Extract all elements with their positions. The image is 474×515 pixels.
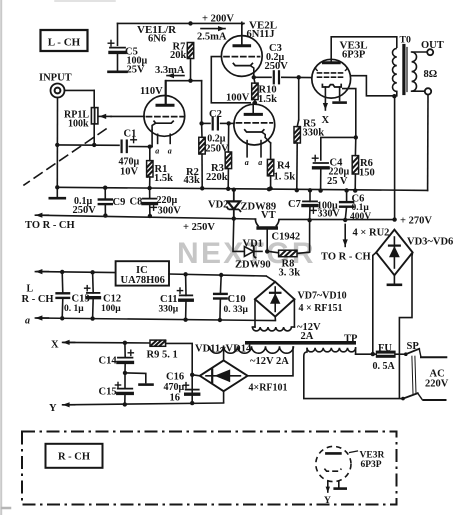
svg-text:T0: T0 [400, 34, 412, 45]
resistor R4 1.5k [267, 159, 295, 182]
tube VE3L labels [340, 40, 368, 61]
wire [117, 23, 119, 45]
svg-text:C10: C10 [228, 294, 246, 305]
svg-text:a: a [258, 158, 262, 167]
transformer TP core [245, 341, 356, 345]
svg-text:3. 3k: 3. 3k [279, 268, 301, 279]
wire R9 to C16 node [166, 342, 193, 344]
svg-text:Y: Y [324, 496, 331, 506]
svg-text:ZDW90: ZDW90 [235, 260, 271, 271]
resistor R1 1.5k [147, 161, 174, 184]
wire lower terminal to ground rail [427, 95, 429, 191]
wire [92, 272, 95, 293]
svg-text:1.5k: 1.5k [154, 173, 173, 184]
capacitor C7 100u 330V [288, 199, 341, 220]
svg-text:X: X [322, 115, 330, 126]
svg-text:Y: Y [49, 403, 57, 414]
triode VE1L/R 6N6 V1 [144, 81, 185, 156]
switch SP lower pole [401, 393, 445, 400]
R-CH label box [46, 444, 103, 468]
wire [219, 275, 222, 294]
svg-text:R9 5. 1: R9 5. 1 [147, 350, 178, 361]
wire Y rail [64, 403, 224, 405]
wire VE3L cathode leads [324, 87, 326, 96]
wire secondary bottom to lower terminal [412, 90, 425, 92]
wire +250V line [37, 215, 256, 219]
svg-text:VE3R: VE3R [360, 451, 385, 461]
svg-text:+ 270V: + 270V [400, 216, 432, 227]
wire [104, 188, 106, 200]
triode VE3R 6P3P dashed [316, 446, 351, 492]
svg-text:16: 16 [170, 393, 181, 404]
wiper arrow of RP1L [99, 114, 111, 119]
transistor VT C1942 [255, 210, 300, 251]
transformer TP upper 12V winding [252, 327, 291, 331]
ground [109, 71, 127, 74]
svg-text:0. 1μ: 0. 1μ [64, 304, 84, 314]
wire bridge AC legs to winding [254, 299, 256, 327]
svg-text:C1942: C1942 [272, 231, 301, 242]
transformer T0 primary winding [392, 48, 396, 91]
capacitor C12 100u [85, 286, 122, 314]
OUT terminal [421, 40, 444, 55]
svg-text:X: X [51, 339, 59, 350]
wire [346, 191, 348, 203]
svg-text:0. 33μ: 0. 33μ [224, 305, 249, 315]
svg-text:a: a [155, 146, 159, 155]
svg-text:6N6: 6N6 [148, 34, 166, 45]
svg-text:110V: 110V [140, 86, 163, 97]
svg-text:L - CH: L - CH [48, 37, 81, 49]
wire [321, 137, 356, 160]
wire bridge DC- to heater rail [274, 317, 276, 321]
svg-text:VD7~VD10: VD7~VD10 [298, 291, 347, 302]
wire [254, 250, 262, 252]
svg-text:a: a [245, 158, 249, 167]
capacitor C13 0.1u [57, 293, 90, 314]
wire [190, 59, 192, 81]
svg-text:C9: C9 [113, 197, 126, 208]
wire +200V to VE2 plate [242, 23, 244, 45]
input jack J1 [39, 73, 72, 98]
svg-text:C15: C15 [99, 387, 117, 398]
svg-text:a: a [168, 146, 172, 155]
zener diode VD1 ZDW90 [235, 239, 271, 271]
svg-text:INPUT: INPUT [39, 73, 72, 84]
beam tetrode VE3L 6P3P [312, 37, 351, 98]
svg-text:+ 250V: + 250V [183, 222, 215, 233]
svg-text:VD3~VD6: VD3~VD6 [407, 237, 453, 248]
svg-text:250V: 250V [265, 61, 289, 72]
wire VE2 grid to lower plate node [211, 57, 251, 103]
wire [117, 52, 119, 70]
svg-text:6N11J: 6N11J [247, 29, 275, 40]
svg-text:4 × RF151: 4 × RF151 [299, 303, 343, 314]
svg-text:220V: 220V [425, 379, 449, 390]
node cathode bias junction [354, 135, 358, 139]
triode VE2L 6N11 upper section [221, 22, 262, 77]
arrow L R-CH [22, 269, 54, 305]
svg-text:UA78H06: UA78H06 [121, 275, 165, 286]
wire [61, 272, 64, 293]
svg-text:VT: VT [261, 210, 276, 221]
svg-text:3.3mA: 3.3mA [155, 65, 185, 76]
resistor R5 330k [294, 119, 324, 143]
transformer T0 core [404, 46, 407, 94]
capacitor C2 0.2u 250V [205, 109, 229, 155]
svg-text:150: 150 [359, 168, 375, 179]
capacitor C8 220u 300V [130, 195, 182, 216]
wire [111, 115, 144, 117]
svg-text:FU: FU [378, 343, 392, 354]
ground [140, 383, 153, 386]
svg-text:6P3P: 6P3P [342, 50, 366, 61]
wire IC output rail [37, 272, 116, 273]
svg-text:C14: C14 [99, 356, 118, 367]
wire transformer primary bottom to +270V node [396, 91, 398, 95]
svg-text:20k: 20k [170, 50, 187, 61]
capacitor C15 [99, 382, 133, 397]
tube VE1 labels [137, 24, 177, 45]
wire C3 to VE3L grid [282, 76, 312, 78]
svg-text:2A: 2A [301, 331, 314, 342]
wire [65, 89, 95, 91]
svg-text:C12: C12 [103, 294, 121, 305]
capacitor C1 470u 10V [119, 129, 140, 178]
svg-text:SP: SP [407, 341, 420, 352]
regulator IC UA78H06 [116, 261, 169, 286]
svg-text:25V: 25V [127, 65, 146, 76]
svg-text:300V: 300V [158, 205, 182, 216]
svg-text:+ 200V: + 200V [202, 14, 234, 25]
wire bridge DC left leg [192, 375, 200, 376]
capacitor C11 330u [159, 288, 193, 315]
wire R8 to +270V rail [297, 221, 310, 254]
resistor R7 20k [170, 42, 194, 61]
svg-text:250V: 250V [73, 205, 97, 216]
wire +200V rail [118, 22, 245, 24]
wire [185, 274, 187, 295]
transformer TP lower 12V winding [210, 346, 294, 353]
filament Y lead [324, 487, 331, 506]
fuse FU 0.5A [373, 343, 396, 372]
wire [227, 123, 229, 152]
capacitor C14 [99, 350, 134, 366]
svg-text:220k: 220k [206, 172, 228, 183]
resistor R3 220k [206, 152, 232, 183]
capacitor C10 0.33u [214, 294, 248, 315]
resistor R2 43k [184, 137, 206, 186]
wire VE3L screen to transformer bottom [350, 76, 393, 96]
tube VE3R labels [350, 451, 385, 471]
svg-text:100μ: 100μ [101, 304, 121, 314]
wire [265, 138, 270, 144]
wire bridge AC right leg [399, 252, 412, 398]
wire +270V rail [279, 218, 395, 220]
output lower terminal [425, 88, 431, 94]
svg-text:2.5mA: 2.5mA [197, 32, 227, 43]
wire primary right to fuse [355, 348, 357, 354]
wire IC input rail [169, 274, 266, 276]
capacitor C3 0.2u 250V [265, 43, 289, 83]
ground [335, 487, 346, 490]
R-CH block dash-dot frame [22, 432, 397, 505]
zener diode VD2 ZDW89 [208, 190, 276, 219]
label 12V 2A upper [297, 322, 321, 342]
wire [320, 168, 322, 191]
arrow Y heater [49, 402, 75, 414]
capacitor C9 0.1u 250V [73, 196, 126, 216]
svg-text:1. 5k: 1. 5k [274, 172, 296, 183]
wire bridge bottom to ground [393, 275, 395, 283]
capacitor C5 100u 25V [108, 40, 147, 75]
wire VE3L cathode to bias network [342, 89, 356, 138]
svg-text:TO R - CH: TO R - CH [321, 252, 371, 263]
svg-text:1.5k: 1.5k [258, 94, 277, 105]
filament arrow to X [322, 97, 330, 126]
svg-text:330μ: 330μ [159, 305, 179, 315]
mechanical link dashed line [24, 129, 106, 185]
capacitor C6 0.1u 400V [340, 193, 371, 222]
transformer T0 secondary winding [412, 52, 417, 91]
wire [93, 90, 95, 107]
resistor R6 150 [352, 156, 375, 179]
current arrow 3.3mA [155, 65, 185, 78]
wire secondary to OUT terminal [412, 51, 427, 53]
wire [298, 77, 300, 120]
svg-text:C8: C8 [130, 197, 143, 208]
svg-text:VD1: VD1 [243, 239, 263, 250]
wire [354, 137, 356, 155]
transformer TP primary winding [307, 348, 356, 352]
label AC 220V [425, 369, 449, 390]
svg-text:C11: C11 [160, 294, 178, 305]
svg-text:C1: C1 [124, 129, 137, 140]
resistor R9 5.1 [147, 340, 178, 360]
wire [149, 147, 151, 161]
svg-text:470μ: 470μ [164, 382, 185, 393]
svg-text:C2: C2 [209, 109, 222, 120]
ground [334, 101, 346, 104]
potentiometer RP1L 100k [64, 108, 98, 130]
wire plate node to C2 junction [166, 80, 202, 82]
svg-text:a: a [25, 316, 30, 327]
arrow TO R-CH left [25, 213, 75, 231]
svg-text:TO R - CH: TO R - CH [25, 220, 75, 231]
ground [50, 197, 65, 200]
arrow a heater [25, 315, 48, 326]
svg-text:0. 5A: 0. 5A [373, 361, 396, 372]
svg-text:VD2: VD2 [208, 200, 228, 211]
current arrow 2.5mA [197, 26, 227, 43]
svg-text:100k: 100k [68, 119, 89, 130]
wire VE3L plate to transformer top [331, 37, 397, 48]
bridge rectifier VD11-VD14 4xRF101 [200, 360, 248, 391]
capacitor C16 470u 16V [164, 372, 199, 404]
triode VE2 6N11 lower section [234, 103, 275, 167]
svg-text:100V: 100V [226, 93, 250, 104]
svg-text:25 V: 25 V [327, 176, 348, 187]
wire IC input to bridge [266, 276, 275, 282]
resistor R10 1.5k [252, 83, 277, 105]
svg-text:43k: 43k [184, 175, 201, 186]
wire ground bus [57, 187, 427, 190]
wire [201, 123, 203, 137]
wire [254, 77, 255, 83]
wire input ground riser [56, 98, 58, 188]
ground [388, 283, 401, 286]
bridge rectifier VD3-VD6 4xRU2 [376, 230, 412, 276]
wire mid to ground [125, 373, 146, 384]
svg-text:OUT: OUT [421, 40, 444, 51]
wire [129, 146, 152, 148]
arrow TO R-CH right [321, 224, 371, 262]
svg-text:TP: TP [344, 334, 358, 345]
svg-text:330V: 330V [318, 209, 341, 220]
wire bridge AC bottom path [248, 346, 293, 376]
wire bridge AC top leg [223, 346, 225, 360]
bridge rectifier VD7-VD10 4xRF151 [255, 282, 294, 317]
wire [124, 373, 126, 389]
wire X rail [64, 341, 150, 344]
wire [93, 124, 95, 145]
wire [202, 122, 210, 124]
svg-text:400V: 400V [350, 212, 371, 222]
wire VD2 node to VD1 [233, 219, 244, 252]
wire [124, 343, 126, 358]
wire [57, 144, 119, 146]
wire [221, 122, 234, 124]
svg-text:10V: 10V [120, 167, 139, 178]
wire bridge AC left leg [373, 252, 376, 354]
svg-text:C16: C16 [166, 372, 184, 383]
svg-text:R4: R4 [277, 160, 291, 171]
tube VE2 labels [247, 20, 278, 40]
L-CH block label box [41, 30, 88, 51]
wire heater 6V rail [37, 318, 275, 321]
arrow X heater [51, 339, 75, 350]
wire primary left down and across [304, 348, 403, 399]
svg-text:R - CH: R - CH [58, 452, 90, 463]
wire cathode node to C3 [254, 76, 271, 78]
wire fuse to switch [395, 353, 406, 355]
switch SP linkage [412, 356, 416, 394]
capacitor C4 220u 25V [312, 155, 349, 187]
wire bridge DC bottom to Y rail [223, 391, 225, 403]
wire [309, 190, 311, 201]
switch SP upper pole [404, 349, 446, 357]
wire [149, 188, 151, 199]
svg-text:R - CH: R - CH [22, 294, 54, 305]
svg-text:~12V 2A: ~12V 2A [250, 356, 289, 367]
svg-text:6P3P: 6P3P [361, 460, 382, 470]
svg-text:4 × RU2: 4 × RU2 [353, 228, 390, 239]
svg-text:8Ω: 8Ω [424, 69, 438, 80]
svg-text:C7: C7 [288, 199, 301, 210]
svg-text:4×RF101: 4×RF101 [249, 383, 288, 394]
resistor R8 3.3k [279, 250, 301, 278]
